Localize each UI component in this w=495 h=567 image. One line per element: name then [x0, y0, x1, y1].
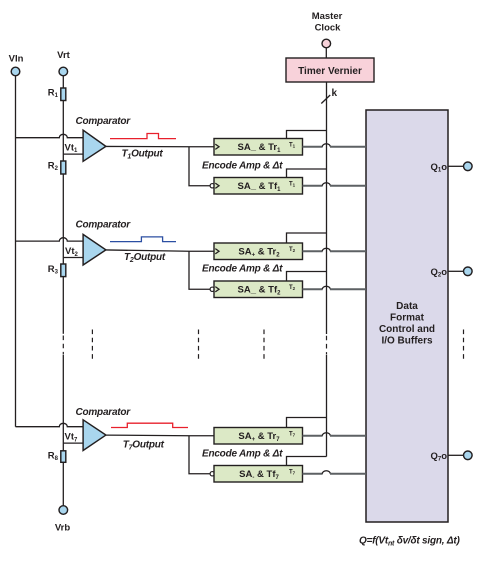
inverter bubble Tf7 input — [210, 472, 214, 476]
ellipsis dashed branch column — [198, 330, 200, 360]
svg-text:SA+ & Tr7: SA+ & Tr7 — [238, 431, 280, 443]
wire comparator2 output to SA Tr2 — [106, 250, 215, 251]
wire comparator1 -input from node Vt1 — [63, 153, 84, 155]
svg-text:Data: Data — [396, 301, 418, 312]
wire clock branch to Tr7 — [287, 418, 327, 428]
svg-text:SA+ & Tr2: SA+ & Tr2 — [238, 247, 280, 259]
block SA & Tr7 — [214, 428, 303, 445]
terminal Q2 — [464, 267, 473, 276]
wire Q1 output — [448, 165, 464, 167]
wire Tf7 output to buffers (hop over clock bus) — [303, 473, 323, 475]
waveform T2 output (blue pulse) — [110, 237, 176, 242]
resistor R1 — [61, 88, 66, 101]
svg-text:R2: R2 — [48, 161, 59, 173]
svg-text:T1: T1 — [289, 142, 296, 148]
svg-text:T1: T1 — [289, 181, 296, 187]
svg-text:k: k — [332, 88, 338, 99]
svg-text:Master: Master — [312, 11, 343, 22]
bus width slash k — [321, 95, 330, 104]
svg-text:Vt7: Vt7 — [65, 432, 79, 444]
pin arrow Tr1 input — [215, 144, 219, 149]
svg-text:Format: Format — [390, 313, 425, 324]
svg-text:Comparator: Comparator — [76, 407, 132, 418]
wire R3 down (ladder continues) — [62, 277, 64, 334]
inverter bubble Tf2 input — [210, 287, 214, 291]
wire branch down to SA Tf7 — [189, 436, 210, 474]
terminal Q1 — [464, 162, 473, 171]
terminal Vrt — [59, 67, 68, 76]
svg-text:Control and: Control and — [379, 324, 435, 335]
svg-text:Timer Vernier: Timer Vernier — [298, 66, 362, 77]
wire clock bus vertical (upper) — [326, 82, 328, 334]
wire clock bus vertical (lower) — [326, 355, 328, 457]
svg-text:T7: T7 — [289, 431, 296, 437]
resistor R2 — [61, 161, 66, 174]
terminal Master Clock — [322, 39, 331, 48]
svg-text:Encode Amp & Δt: Encode Amp & Δt — [202, 264, 283, 275]
wire comparator7 -input from node Vt7 — [63, 442, 84, 444]
svg-text:I/O Buffers: I/O Buffers — [381, 336, 433, 347]
wire comparator2 +input from Vin (hop over ladder) — [16, 238, 85, 241]
wire comparator1 +input from Vin (hop over ladder) — [16, 134, 85, 137]
block Timer Vernier U8 — [286, 58, 374, 82]
wire clock branch to Tf7 — [287, 457, 327, 466]
svg-text:SA_ & Tr1: SA_ & Tr1 — [238, 142, 282, 154]
ellipsis dashed output column — [463, 330, 465, 360]
comparator U7 — [83, 420, 106, 451]
wire Master Clock to Timer Vernier — [325, 48, 327, 58]
wire clock bus ellipsis dashed — [326, 336, 328, 354]
svg-text:Encode Amp & Δt: Encode Amp & Δt — [202, 160, 283, 171]
svg-text:Clock: Clock — [315, 23, 342, 34]
svg-text:VIn: VIn — [9, 54, 24, 65]
svg-text:R8: R8 — [48, 451, 59, 463]
svg-text:T2Output: T2Output — [124, 252, 166, 264]
svg-text:Vrb: Vrb — [55, 523, 71, 534]
block SA & Tr1 — [214, 139, 303, 156]
wire comparator7 +input from Vin (hop over ladder) — [16, 423, 85, 426]
wire R2 to R3 (node Vt2) — [62, 174, 64, 264]
wire clock branch to Tr1 — [287, 131, 327, 139]
wire Vin vertical bus — [15, 76, 17, 427]
wire Q2 output — [448, 270, 464, 272]
svg-text:R3: R3 — [48, 264, 59, 276]
svg-text:T2: T2 — [289, 247, 296, 253]
ellipsis dashed SA column — [263, 330, 265, 360]
terminal Vin — [11, 67, 20, 76]
svg-text:Comparator: Comparator — [76, 219, 132, 230]
svg-text:Vrt: Vrt — [57, 50, 71, 61]
svg-text:R1: R1 — [48, 88, 59, 100]
wire branch down to SA Tf2 — [189, 251, 210, 289]
svg-text:SA- & Tf7: SA- & Tf7 — [239, 469, 279, 481]
block SA & Tr2 — [214, 243, 303, 260]
pin arrow Tr2 input — [215, 249, 219, 254]
waveform T7 output (red pulse wide) — [111, 423, 188, 427]
svg-text:T7: T7 — [289, 469, 296, 475]
wire Tf2 output to buffers (hop over clock bus) — [303, 288, 323, 290]
wire Tr1 output to buffers (hop over clock bus) — [303, 146, 323, 148]
wire ladder to R8 (node Vt7) — [62, 355, 64, 451]
wire Tr7 output to buffers (hop over clock bus) — [303, 435, 323, 437]
wire comparator7 output to SA Tr7 — [106, 434, 215, 437]
svg-text:SA_ & Tf1: SA_ & Tf1 — [238, 181, 282, 193]
wire comparator1 output to SA Tr1 — [106, 145, 215, 147]
svg-text:Comparator: Comparator — [76, 116, 132, 127]
waveform T1 output (red pulse) — [110, 134, 176, 139]
svg-text:Q=f(Vtnt δv/δt sign, Δt): Q=f(Vtnt δv/δt sign, Δt) — [359, 536, 460, 548]
svg-text:Vt1: Vt1 — [65, 142, 79, 154]
block SA & Tf2 — [214, 281, 303, 298]
wire ladder ellipsis dashed — [62, 336, 64, 355]
svg-text:T2: T2 — [289, 285, 296, 291]
wire clock branch to Tf1 — [287, 169, 327, 178]
terminal Vrb — [59, 506, 68, 515]
svg-text:Vt2: Vt2 — [65, 246, 79, 258]
resistor R3 — [61, 264, 66, 277]
block SA & Tf1 — [214, 178, 303, 195]
wire Vrt to R1 — [62, 76, 64, 88]
wire Tf1 output to buffers (hop over clock bus) — [303, 185, 323, 187]
wire Q7 output — [448, 454, 464, 456]
comparator U2 — [83, 234, 106, 265]
inverter bubble Tf1 input — [210, 184, 214, 188]
comparator U1 — [83, 130, 106, 161]
wire comparator2 -input from node Vt2 — [63, 257, 84, 259]
wire R8 to Vrb — [62, 462, 64, 505]
resistor R8 — [61, 451, 66, 463]
wire clock branch to Tf2 — [287, 272, 327, 282]
svg-text:T1Output: T1Output — [122, 148, 164, 160]
pin arrow Tf1 input — [215, 183, 219, 188]
svg-text:T7Output: T7Output — [123, 439, 165, 451]
svg-text:SA_ & Tf2: SA_ & Tf2 — [238, 285, 282, 297]
wire Tr2 output to buffers (hop over clock bus) — [303, 250, 323, 252]
wire branch down to SA Tf1 — [189, 147, 210, 186]
terminal Q7 — [464, 451, 473, 460]
wire R1 to R2 (node Vt1) — [62, 101, 64, 162]
block Data Format Control and I/O Buffers — [366, 110, 448, 522]
svg-text:Encode Amp & Δt: Encode Amp & Δt — [202, 449, 283, 460]
block SA & Tf7 — [214, 466, 303, 483]
pin arrow Tf2 input — [215, 287, 219, 292]
ellipsis dashed comparator column — [91, 330, 93, 360]
wire clock branch to Tr2 — [287, 233, 327, 243]
